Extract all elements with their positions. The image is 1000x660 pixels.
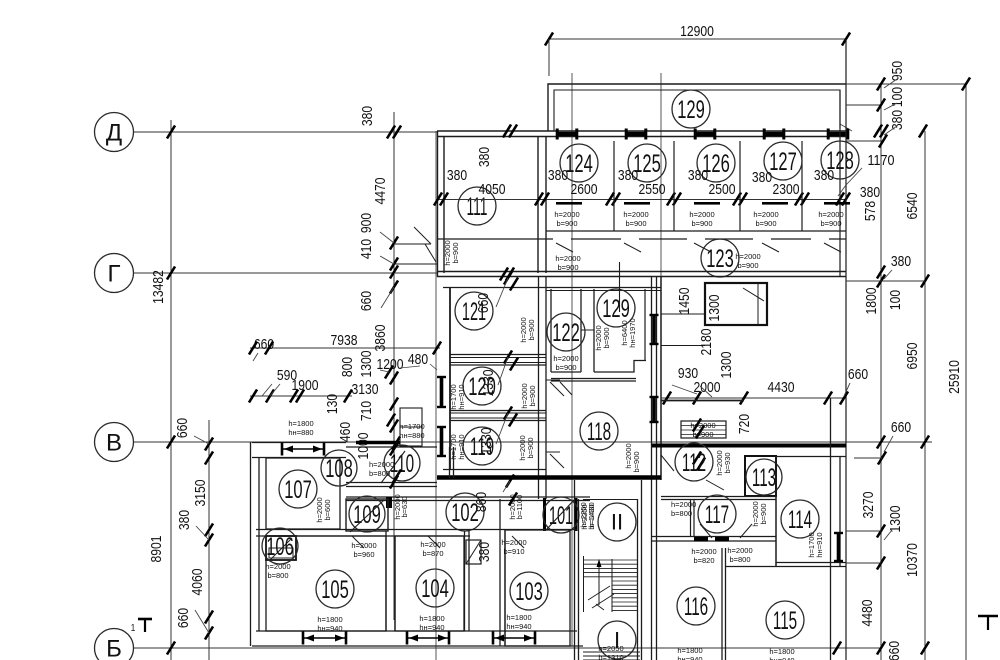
room 116 circle — [677, 587, 715, 625]
room 120 circle — [463, 367, 501, 405]
door lines at x394 y244 — [394, 243, 425, 245]
svg-text:hн=940: hн=940 — [677, 655, 702, 660]
axis circle В — [95, 423, 134, 462]
svg-text:380: 380 — [889, 110, 906, 130]
svg-text:Г: Г — [108, 260, 121, 287]
beta wall left a — [252, 442, 346, 444]
right wall outer — [845, 39, 847, 660]
beta wall right wing — [652, 444, 846, 448]
ticks right beta — [877, 436, 885, 449]
svg-text:13482: 13482 — [150, 270, 167, 304]
bottom window 103 — [492, 637, 536, 639]
top right line y141 — [846, 140, 881, 142]
svg-text:410: 410 — [358, 239, 375, 259]
wall 111-124 b — [545, 136, 547, 273]
room 106 box — [266, 536, 296, 560]
wall x652 — [656, 276, 658, 499]
bottom window 105 — [302, 637, 347, 639]
hall dim line y398 — [661, 397, 846, 399]
tick axis Д — [167, 126, 175, 139]
svg-text:Д: Д — [106, 119, 122, 146]
svg-text:10370: 10370 — [904, 543, 921, 577]
shaft diagonal — [743, 288, 764, 301]
line y458 r — [854, 457, 882, 459]
svg-text:118: 118 — [587, 418, 611, 446]
wall 101 left — [543, 498, 546, 531]
room 104 circle — [416, 569, 454, 607]
shaft mid line — [757, 283, 759, 325]
svg-text:b=900: b=900 — [737, 261, 758, 270]
svg-text:129: 129 — [602, 295, 630, 323]
room 127 circle — [764, 142, 802, 180]
wall 116 left a — [651, 499, 653, 660]
room 125 circle — [628, 144, 666, 182]
svg-text:660: 660 — [475, 293, 492, 313]
wall 116 left b — [656, 499, 658, 660]
grid line x661 — [660, 73, 662, 278]
svg-text:127: 127 — [769, 148, 797, 176]
svg-text:2500: 2500 — [709, 181, 736, 198]
stair arrowhead — [597, 559, 602, 567]
svg-text:6950: 6950 — [904, 343, 921, 370]
door line at x394 y264 — [394, 263, 437, 265]
stair break diag — [588, 586, 610, 600]
top wall window 125 — [625, 132, 647, 136]
grid line x572 — [571, 73, 573, 646]
room 107 circle — [279, 470, 317, 508]
wall 116-115 a — [721, 548, 723, 660]
room 112 circle — [675, 443, 713, 481]
cabinet lines — [681, 425, 726, 427]
room 110 circle — [384, 445, 420, 481]
leader 860 — [503, 481, 510, 492]
wall 116-115 b — [725, 548, 727, 660]
c394 leader lines — [380, 232, 394, 243]
tick axis В — [167, 436, 175, 449]
ticks x881 low — [877, 525, 885, 538]
svg-text:b=900: b=900 — [602, 327, 611, 348]
stall partition c — [739, 141, 741, 231]
hall line b — [661, 345, 705, 347]
svg-text:b=900: b=900 — [527, 319, 536, 340]
svg-text:b=900: b=900 — [556, 219, 577, 228]
svg-text:hн=940: hн=940 — [317, 624, 342, 633]
window x652 a — [652, 314, 656, 345]
line y281 — [846, 280, 925, 282]
svg-text:h=1800: h=1800 — [506, 613, 531, 622]
svg-text:b=900: b=900 — [632, 451, 641, 472]
svg-text:380: 380 — [476, 542, 493, 562]
room 113 circle — [746, 459, 782, 495]
svg-text:710: 710 — [358, 401, 375, 421]
room 118 top wall a — [551, 378, 636, 380]
axis circle Д — [95, 113, 134, 152]
wall 114 left — [775, 456, 777, 566]
left chain ext lines — [194, 436, 209, 444]
grid line x436 — [435, 131, 437, 660]
svg-text:380: 380 — [618, 167, 638, 184]
beta window — [281, 448, 325, 450]
svg-text:1800: 1800 — [863, 288, 880, 315]
entrance lines — [583, 651, 640, 653]
svg-text:hн=880: hн=880 — [399, 431, 424, 440]
svg-text:380: 380 — [860, 184, 880, 201]
room 113 box — [745, 456, 776, 496]
svg-text:b=800: b=800 — [267, 571, 288, 580]
window x652 b — [652, 396, 656, 423]
dim 12900 ext left — [548, 39, 550, 76]
beta wall mid — [346, 446, 437, 448]
room 122 left wall — [550, 289, 552, 372]
room 108 circle — [321, 450, 357, 486]
c394 dtick top — [387, 126, 395, 139]
tick 860 b — [509, 493, 517, 506]
dim leaders tr — [884, 79, 897, 88]
window right wall — [837, 532, 841, 562]
room 118 door notch — [546, 379, 560, 381]
stall bottom wall — [546, 230, 846, 232]
door threshold 116 — [694, 537, 708, 542]
svg-text:В: В — [106, 429, 122, 456]
svg-text:h=2000: h=2000 — [623, 210, 648, 219]
wall 111-124 a — [537, 136, 539, 273]
wall x661 — [660, 276, 662, 480]
svg-text:124: 124 — [565, 150, 593, 178]
room 103 box — [505, 530, 570, 646]
shaft box — [705, 283, 767, 325]
svg-text:2300: 2300 — [773, 181, 800, 198]
wall 104-103 b — [468, 531, 470, 631]
svg-text:3130: 3130 — [352, 381, 379, 398]
svg-text:8901: 8901 — [148, 536, 165, 563]
mid col right wall b — [545, 276, 547, 499]
room 101 circle — [543, 497, 579, 533]
svg-text:2600: 2600 — [571, 181, 598, 198]
svg-text:h=2000: h=2000 — [818, 210, 843, 219]
svg-text:b=930: b=930 — [723, 452, 732, 473]
room 129 balcony circle — [672, 90, 710, 128]
room 118 door notch2 — [546, 451, 560, 453]
room 112 door swing — [661, 455, 674, 471]
svg-text:hн=910: hн=910 — [457, 434, 466, 459]
top wall outer — [437, 130, 846, 132]
svg-text:7938: 7938 — [331, 332, 358, 349]
svg-text:h=2000: h=2000 — [555, 254, 580, 263]
central dim line x394 — [393, 112, 395, 620]
corridor south wall — [346, 496, 590, 498]
svg-text:h=1800: h=1800 — [677, 646, 702, 655]
svg-text:b=900: b=900 — [691, 219, 712, 228]
room 106 diag — [270, 538, 292, 560]
mid top wall — [546, 287, 661, 289]
stair left wall b — [578, 499, 580, 660]
room 111 left wall outer — [437, 131, 439, 277]
room 118 top door diag — [560, 382, 572, 395]
svg-text:hн=910: hн=910 — [815, 532, 824, 557]
svg-text:b=900: b=900 — [526, 437, 535, 458]
axis circle Б — [95, 629, 134, 660]
top wall window 128 — [827, 132, 849, 136]
balcony leader — [840, 124, 852, 131]
svg-text:h=2000: h=2000 — [671, 500, 696, 509]
room 104 box — [395, 536, 464, 631]
svg-text:103: 103 — [515, 578, 543, 606]
dim 1300 r leader — [884, 530, 892, 540]
door jamb 109 — [386, 497, 392, 508]
svg-text:110: 110 — [390, 450, 414, 478]
gamma wall dticks — [500, 268, 508, 281]
room 128 circle — [821, 141, 859, 179]
top right dim line y84 — [846, 83, 966, 85]
svg-text:12900: 12900 — [680, 23, 714, 40]
top right ticks y84 — [877, 78, 885, 91]
room 119 bottom — [443, 469, 546, 471]
room 122 circle — [547, 313, 585, 351]
stair tread edge — [583, 556, 585, 612]
wall y541 — [652, 540, 776, 542]
dim line x881 — [880, 84, 882, 660]
svg-text:112: 112 — [682, 449, 706, 477]
svg-text:25910: 25910 — [946, 360, 963, 394]
svg-text:860: 860 — [473, 492, 490, 512]
svg-text:1900: 1900 — [292, 377, 319, 394]
svg-text:b=900: b=900 — [755, 219, 776, 228]
balcony outer wall — [548, 84, 846, 131]
room 105 door diag — [352, 536, 364, 548]
door box 104-103 — [466, 540, 481, 564]
svg-text:130: 130 — [324, 394, 341, 414]
svg-text:380: 380 — [688, 167, 708, 184]
dim line x925 — [924, 131, 926, 660]
room 129 left wall — [593, 289, 595, 372]
bottom wall inner — [252, 645, 583, 647]
svg-text:380: 380 — [176, 510, 193, 530]
svg-text:101: 101 — [549, 502, 573, 530]
wall 104-103 a — [464, 531, 466, 631]
svg-text:b=960: b=960 — [353, 550, 374, 559]
svg-text:h=2000: h=2000 — [753, 210, 778, 219]
stall door swings — [556, 243, 573, 252]
svg-text:4470: 4470 — [372, 178, 389, 205]
top right line y105 — [846, 104, 881, 106]
svg-text:h=1800: h=1800 — [288, 419, 313, 428]
svg-text:b=900: b=900 — [555, 363, 576, 372]
line top 113-114 — [776, 456, 846, 458]
svg-text:3150: 3150 — [192, 480, 209, 507]
stall partition b — [673, 141, 675, 231]
c394 ticks — [390, 237, 398, 250]
dim y396 ticks — [249, 390, 257, 403]
cavity line — [581, 329, 594, 331]
axis line Г — [134, 272, 437, 274]
tick x925 y281 — [921, 275, 929, 288]
svg-text:1300: 1300 — [887, 506, 904, 533]
room 118 circle — [580, 412, 618, 450]
svg-text:2550: 2550 — [639, 181, 666, 198]
stall partition a — [613, 141, 615, 231]
svg-text:b=900: b=900 — [451, 242, 460, 263]
svg-text:Б: Б — [106, 635, 122, 660]
room 123 circle — [701, 239, 739, 277]
svg-text:1: 1 — [131, 623, 136, 634]
line y563 r — [846, 562, 881, 564]
svg-text:660: 660 — [891, 419, 911, 436]
svg-text:b=600: b=600 — [323, 499, 332, 520]
ticks x881 mid — [877, 266, 885, 279]
wall y536 a — [652, 536, 776, 538]
bottom wall outer — [256, 630, 577, 632]
svg-text:380: 380 — [447, 167, 467, 184]
axis line Д — [134, 131, 437, 133]
wall y536 — [256, 535, 470, 537]
tick axis Г — [167, 267, 175, 280]
cabinet box — [681, 421, 726, 438]
room 115 circle — [766, 601, 804, 639]
stall partition d — [801, 141, 803, 231]
svg-text:3270: 3270 — [860, 492, 877, 519]
room 107 box — [266, 458, 340, 529]
svg-text:h=2000: h=2000 — [265, 562, 290, 571]
svg-text:2180: 2180 — [698, 329, 715, 356]
room 124 circle — [560, 144, 598, 182]
room 103 circle — [510, 572, 548, 610]
room 117 box top a — [661, 496, 776, 498]
svg-text:720: 720 — [736, 414, 753, 434]
tick 860 a — [506, 475, 514, 488]
room 121 circle — [455, 292, 493, 330]
room 103 door diag — [512, 536, 524, 548]
svg-text:4480: 4480 — [859, 600, 876, 627]
room 101 door diag — [546, 500, 574, 530]
room 111 circle — [458, 187, 496, 225]
axis line В — [134, 441, 932, 443]
dim 7938 ticks — [249, 342, 257, 355]
svg-text:6540: 6540 — [904, 193, 921, 220]
cupboard 110-119 — [400, 408, 422, 446]
right wall lower a — [830, 398, 832, 660]
svg-text:4050: 4050 — [479, 181, 506, 198]
gamma wall outer — [437, 271, 846, 273]
axis line Б — [134, 647, 882, 649]
wall 114 right a — [839, 456, 841, 566]
left dim chain line — [208, 420, 210, 660]
mid col tick cascade3 — [504, 407, 512, 420]
svg-text:380: 380 — [359, 106, 376, 126]
svg-text:380: 380 — [814, 167, 834, 184]
svg-text:117: 117 — [705, 501, 729, 529]
room 109 box — [346, 499, 388, 531]
wall 120-119 b — [450, 417, 546, 419]
svg-text:h=2000: h=2000 — [727, 546, 752, 555]
dim 660 r4 leader — [884, 436, 893, 452]
svg-text:950: 950 — [889, 61, 906, 81]
stair treads lower — [612, 580, 637, 582]
section mark right — [978, 615, 998, 618]
svg-text:b=1430: b=1430 — [587, 504, 596, 529]
svg-text:b=870: b=870 — [422, 549, 443, 558]
svg-text:460: 460 — [337, 422, 354, 442]
room 114 bottom a — [776, 562, 846, 564]
stair arrow line — [598, 561, 600, 605]
dim 590 leaders — [262, 384, 272, 396]
section mark 1 — [138, 618, 152, 621]
svg-text:660: 660 — [175, 608, 192, 628]
room 106 circle — [262, 528, 298, 564]
room 117 box top b — [661, 499, 776, 501]
svg-text:h=2000: h=2000 — [553, 354, 578, 363]
room 122 right wall — [580, 289, 582, 372]
dim line y199 — [437, 199, 846, 201]
svg-text:b=900: b=900 — [625, 219, 646, 228]
room 129 lower circle — [597, 289, 635, 327]
room II circle — [598, 503, 636, 541]
mid col right wall a — [538, 276, 540, 499]
svg-text:h=1800: h=1800 — [419, 614, 444, 623]
svg-text:105: 105 — [321, 576, 349, 604]
svg-text:h=1800: h=1800 — [317, 615, 342, 624]
svg-text:113: 113 — [752, 464, 776, 492]
svg-text:104: 104 — [421, 575, 449, 603]
rooms 108-110 bottom wall — [346, 482, 437, 484]
svg-text:h=2000: h=2000 — [689, 210, 714, 219]
svg-text:900: 900 — [358, 213, 375, 233]
top wall window 126 — [694, 132, 716, 136]
door threshold 115 — [715, 537, 729, 542]
svg-text:800: 800 — [339, 357, 356, 377]
room 129 right wall — [644, 289, 646, 361]
mid col tick cascade2 — [504, 351, 512, 364]
hall line a — [661, 313, 705, 315]
room 111 left wall inner — [443, 136, 445, 273]
room 110 door diag — [381, 451, 405, 483]
svg-text:100: 100 — [889, 87, 906, 107]
dim 12900 line — [549, 38, 846, 40]
svg-text:660: 660 — [848, 366, 868, 383]
svg-text:116: 116 — [684, 593, 708, 621]
svg-text:b=820: b=820 — [693, 556, 714, 565]
room I circle — [598, 621, 636, 659]
mid col top wall — [443, 287, 546, 289]
svg-text:b=900: b=900 — [528, 385, 537, 406]
wall segment at B axis — [356, 441, 400, 445]
svg-text:1170: 1170 — [868, 152, 895, 169]
svg-text:1450: 1450 — [676, 288, 693, 315]
dim line y396 — [250, 395, 352, 397]
svg-text:h=2000: h=2000 — [554, 210, 579, 219]
mid col tick cascade1 — [504, 272, 512, 285]
svg-text:hн=880: hн=880 — [288, 428, 313, 437]
room 119 circle — [463, 427, 501, 465]
cabinet ticks — [693, 419, 701, 432]
svg-text:b=1100: b=1100 — [515, 495, 524, 520]
svg-text:b=800: b=800 — [671, 509, 692, 518]
top wall window 124 — [556, 132, 578, 136]
dim 1170 leader — [846, 168, 862, 185]
dim line x966 — [965, 82, 967, 660]
svg-text:380: 380 — [548, 167, 568, 184]
line y531 r — [846, 530, 881, 532]
svg-text:108: 108 — [325, 455, 353, 483]
dim 930 leader — [672, 385, 697, 394]
tick B axis right wall — [833, 642, 841, 655]
svg-text:380: 380 — [891, 253, 911, 270]
room 117 circle — [698, 495, 736, 533]
svg-text:1300: 1300 — [706, 295, 723, 322]
svg-text:578: 578 — [862, 201, 879, 221]
svg-text:h=1700: h=1700 — [399, 422, 424, 431]
room 122 bottom wall — [551, 371, 581, 373]
stair treads upper — [584, 559, 637, 561]
